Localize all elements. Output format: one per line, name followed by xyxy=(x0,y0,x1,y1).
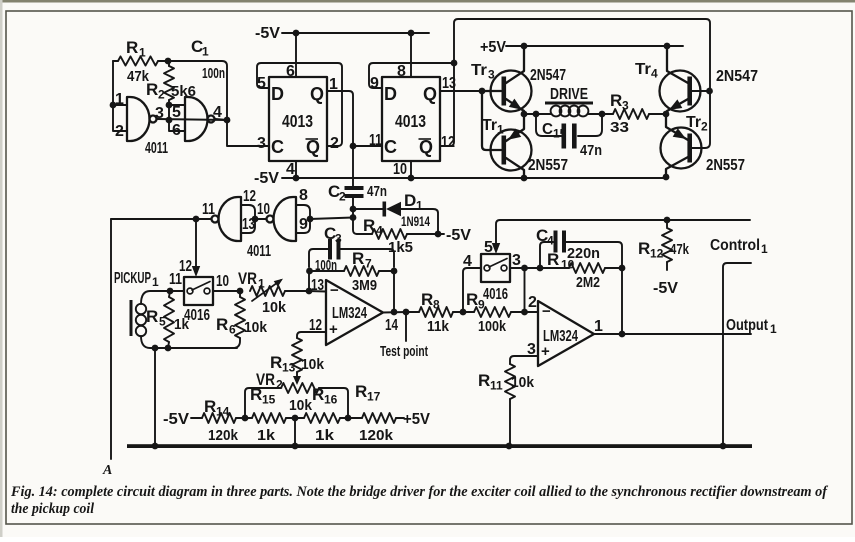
svg-text:13: 13 xyxy=(442,75,456,92)
svg-text:10: 10 xyxy=(216,273,229,290)
svg-text:13: 13 xyxy=(311,277,324,294)
svg-text:9: 9 xyxy=(299,216,308,233)
svg-text:8: 8 xyxy=(433,298,440,312)
svg-text:R: R xyxy=(355,382,367,401)
svg-text:3: 3 xyxy=(335,232,342,246)
svg-text:8: 8 xyxy=(299,187,308,204)
svg-text:1: 1 xyxy=(258,277,265,291)
svg-text:C: C xyxy=(384,137,397,157)
svg-text:4016: 4016 xyxy=(483,286,508,303)
svg-text:15: 15 xyxy=(262,393,276,407)
svg-text:R: R xyxy=(610,91,622,110)
svg-text:Q: Q xyxy=(419,137,433,157)
svg-text:D: D xyxy=(384,84,397,104)
svg-text:1: 1 xyxy=(416,199,423,213)
svg-text:LM324: LM324 xyxy=(332,305,367,322)
svg-text:Tr: Tr xyxy=(482,117,497,134)
svg-text:R: R xyxy=(146,80,158,99)
svg-text:1: 1 xyxy=(115,91,124,108)
svg-text:-5V: -5V xyxy=(446,227,471,244)
svg-text:3: 3 xyxy=(512,252,521,269)
svg-text:LM324: LM324 xyxy=(543,328,578,345)
svg-text:4016: 4016 xyxy=(184,307,210,324)
svg-text:9: 9 xyxy=(370,75,379,92)
svg-text:DRIVE: DRIVE xyxy=(550,86,588,103)
svg-text:1: 1 xyxy=(761,242,768,256)
svg-text:4: 4 xyxy=(651,67,658,81)
svg-text:17: 17 xyxy=(367,390,381,404)
svg-text:7: 7 xyxy=(365,257,372,271)
svg-text:2M2: 2M2 xyxy=(576,274,600,291)
svg-text:4011: 4011 xyxy=(145,140,168,157)
svg-text:A: A xyxy=(102,463,112,478)
svg-text:100k: 100k xyxy=(478,318,507,335)
svg-text:+5V: +5V xyxy=(403,411,430,428)
svg-text:12: 12 xyxy=(243,188,256,205)
svg-text:+5V: +5V xyxy=(480,39,506,56)
svg-text:D: D xyxy=(404,191,416,210)
svg-text:VR: VR xyxy=(238,269,257,288)
svg-text:1k: 1k xyxy=(257,427,276,444)
svg-text:11: 11 xyxy=(369,132,382,149)
svg-text:R: R xyxy=(638,239,650,258)
svg-text:PICKUP: PICKUP xyxy=(114,270,151,287)
svg-text:3: 3 xyxy=(488,68,495,82)
svg-text:1N914: 1N914 xyxy=(401,213,430,229)
svg-text:the pickup coil: the pickup coil xyxy=(11,501,95,517)
svg-text:2: 2 xyxy=(339,190,346,204)
svg-text:2N557: 2N557 xyxy=(706,157,745,174)
svg-text:1: 1 xyxy=(139,46,146,60)
svg-text:10k: 10k xyxy=(244,319,268,336)
svg-text:1: 1 xyxy=(202,45,209,59)
svg-text:Q: Q xyxy=(423,84,437,104)
svg-text:R: R xyxy=(216,315,228,334)
svg-text:5: 5 xyxy=(484,239,493,256)
svg-text:Output: Output xyxy=(726,317,769,334)
svg-text:R: R xyxy=(547,250,559,269)
svg-text:3M9: 3M9 xyxy=(352,277,377,294)
svg-text:5: 5 xyxy=(159,315,166,329)
svg-text:Tr: Tr xyxy=(686,114,701,131)
svg-text:14: 14 xyxy=(216,405,230,419)
svg-text:R: R xyxy=(126,38,138,57)
svg-text:4: 4 xyxy=(286,161,295,178)
svg-text:1: 1 xyxy=(770,322,777,336)
svg-text:14: 14 xyxy=(385,317,398,334)
svg-text:120k: 120k xyxy=(208,427,239,444)
svg-text:3: 3 xyxy=(257,135,266,152)
svg-text:4: 4 xyxy=(213,104,222,121)
svg-text:11: 11 xyxy=(169,271,182,288)
svg-text:4013: 4013 xyxy=(395,111,426,131)
svg-text:R: R xyxy=(421,290,433,309)
svg-text:C: C xyxy=(271,137,284,157)
svg-text:11: 11 xyxy=(202,201,215,218)
svg-text:+: + xyxy=(329,321,338,338)
svg-text:10k: 10k xyxy=(301,356,325,373)
svg-text:Test point: Test point xyxy=(380,343,428,360)
svg-text:6: 6 xyxy=(172,122,181,139)
svg-text:R: R xyxy=(363,216,375,235)
svg-text:Control: Control xyxy=(710,237,760,254)
svg-text:Q: Q xyxy=(310,84,324,104)
svg-text:-5V: -5V xyxy=(163,411,189,428)
svg-text:2N547: 2N547 xyxy=(530,67,566,84)
svg-text:Tr: Tr xyxy=(471,62,487,79)
svg-text:−: − xyxy=(330,282,339,299)
svg-text:2N547: 2N547 xyxy=(716,68,758,85)
svg-text:4: 4 xyxy=(376,224,383,238)
svg-text:D: D xyxy=(271,84,284,104)
svg-text:1k: 1k xyxy=(315,427,335,444)
svg-text:12: 12 xyxy=(650,247,664,261)
svg-text:4: 4 xyxy=(547,234,554,248)
svg-text:C: C xyxy=(542,121,553,138)
svg-text:10k: 10k xyxy=(511,374,535,391)
svg-text:1: 1 xyxy=(594,318,603,335)
svg-text:10k: 10k xyxy=(289,397,313,414)
svg-text:R: R xyxy=(352,249,364,268)
svg-text:47n: 47n xyxy=(367,183,387,200)
svg-text:-5V: -5V xyxy=(254,170,279,187)
svg-text:10: 10 xyxy=(257,201,270,218)
svg-text:100n: 100n xyxy=(202,65,225,82)
svg-text:2: 2 xyxy=(330,135,339,152)
svg-text:13: 13 xyxy=(242,216,255,233)
svg-text:10: 10 xyxy=(393,161,407,178)
svg-text:6: 6 xyxy=(286,63,295,80)
svg-text:100n: 100n xyxy=(315,258,337,274)
svg-text:10: 10 xyxy=(561,258,575,272)
svg-text:3: 3 xyxy=(622,99,629,113)
svg-text:47k: 47k xyxy=(670,241,689,258)
svg-text:R: R xyxy=(146,307,158,326)
svg-text:2: 2 xyxy=(115,123,124,140)
svg-text:33: 33 xyxy=(610,119,629,136)
svg-text:R: R xyxy=(250,385,262,404)
svg-text:-5V: -5V xyxy=(255,25,280,42)
svg-text:13: 13 xyxy=(282,361,296,375)
svg-text:1k5: 1k5 xyxy=(388,239,413,256)
svg-text:2: 2 xyxy=(701,120,708,134)
svg-text:11k: 11k xyxy=(427,318,450,335)
svg-text:Q: Q xyxy=(306,137,320,157)
svg-text:R: R xyxy=(478,371,490,390)
svg-text:16: 16 xyxy=(324,393,338,407)
svg-text:47n: 47n xyxy=(580,142,602,159)
svg-text:R: R xyxy=(204,397,216,416)
svg-text:−: − xyxy=(542,303,551,320)
svg-text:5: 5 xyxy=(257,75,266,92)
svg-text:10k: 10k xyxy=(262,299,287,316)
svg-text:2: 2 xyxy=(276,378,283,392)
svg-text:120k: 120k xyxy=(359,427,394,444)
svg-text:R: R xyxy=(312,385,324,404)
svg-text:12: 12 xyxy=(441,134,455,151)
svg-text:2: 2 xyxy=(528,294,537,311)
svg-text:Fig. 14: complete circuit diag: Fig. 14: complete circuit diagram in thr… xyxy=(10,484,829,500)
svg-text:4013: 4013 xyxy=(282,111,313,131)
svg-text:11: 11 xyxy=(490,379,503,393)
svg-text:8: 8 xyxy=(397,63,406,80)
svg-text:3: 3 xyxy=(155,105,164,122)
svg-text:1: 1 xyxy=(152,275,159,289)
svg-text:4011: 4011 xyxy=(247,243,271,260)
svg-text:1: 1 xyxy=(497,123,504,137)
svg-text:6: 6 xyxy=(229,323,236,337)
svg-text:R: R xyxy=(466,290,478,309)
svg-text:5: 5 xyxy=(172,104,181,121)
svg-text:2N557: 2N557 xyxy=(528,157,568,174)
svg-text:Tr: Tr xyxy=(635,61,651,78)
svg-text:+: + xyxy=(541,343,550,360)
svg-text:-5V: -5V xyxy=(653,280,678,297)
svg-text:15: 15 xyxy=(553,127,567,141)
svg-text:2: 2 xyxy=(158,88,165,102)
